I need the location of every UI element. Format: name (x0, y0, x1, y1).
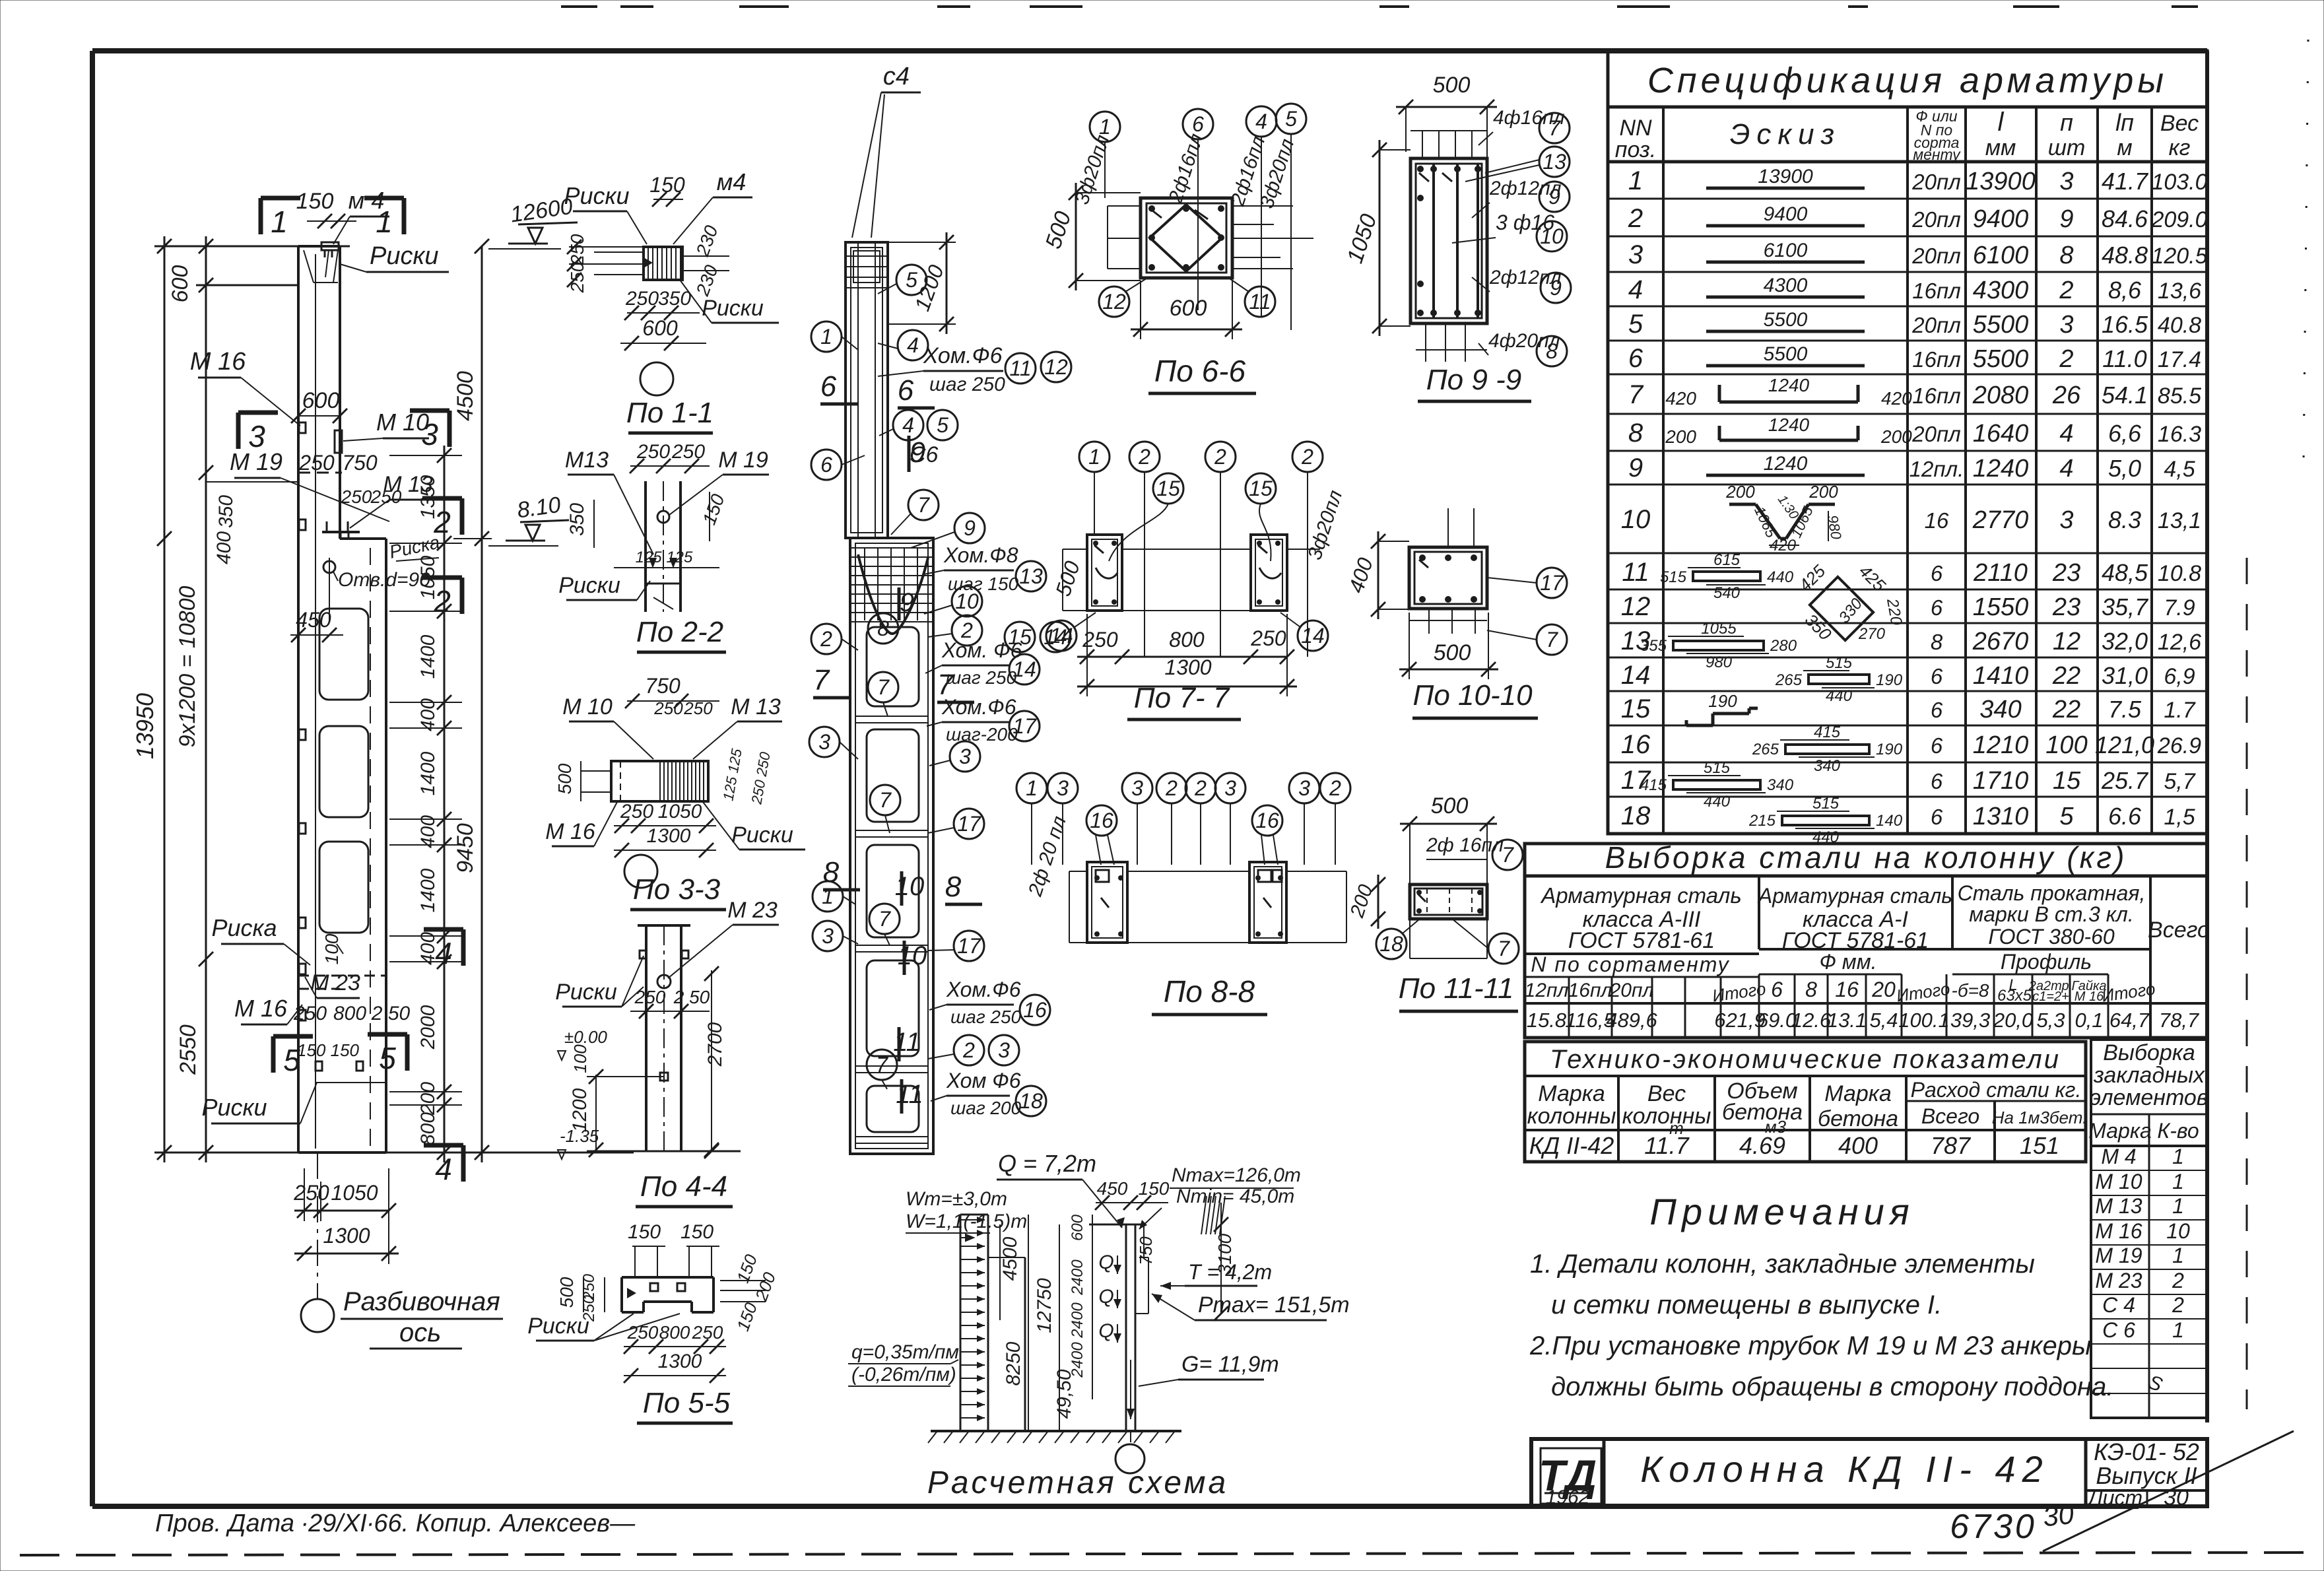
svg-text:1: 1 (1088, 445, 1100, 469)
svg-text:23: 23 (2052, 593, 2080, 621)
svg-text:Риски: Риски (555, 980, 617, 1005)
svg-text:1210: 1210 (1973, 731, 2029, 759)
svg-text:9: 9 (1628, 453, 1643, 483)
svg-text:230: 230 (692, 262, 722, 299)
svg-text:6: 6 (1931, 595, 1943, 620)
svg-text:2: 2 (820, 627, 832, 651)
svg-text:Nmax=126,0т: Nmax=126,0т (1172, 1164, 1301, 1186)
elevation right dim chain D (453, 239, 492, 1162)
svg-text:М 16: М 16 (2075, 989, 2104, 1004)
svg-text:lп: lп (2115, 109, 2134, 136)
svg-text:2110: 2110 (1973, 559, 2028, 587)
svg-text:17: 17 (957, 934, 981, 958)
svg-text:100: 100 (321, 933, 342, 964)
svg-text:1.7: 1.7 (2164, 698, 2195, 723)
level mark 8.10 (488, 492, 569, 546)
svg-text:8.10: 8.10 (515, 492, 562, 523)
svg-text:14: 14 (1301, 624, 1325, 648)
svg-text:элементов: элементов (2090, 1085, 2208, 1110)
svg-text:250 250: 250 250 (748, 751, 774, 806)
section flags on elevation (238, 198, 463, 1186)
svg-text:На 1м3бет.: На 1м3бет. (1992, 1108, 2088, 1127)
svg-text:12750: 12750 (1034, 1278, 1055, 1333)
svg-text:шаг-200: шаг-200 (946, 724, 1018, 745)
cage circled refs left (809, 321, 900, 1089)
svg-text:13: 13 (1543, 150, 1566, 174)
svg-text:1300: 1300 (658, 1351, 702, 1372)
svg-text:20пл: 20пл (1911, 207, 1960, 232)
svg-text:1240: 1240 (1768, 415, 1810, 435)
svg-text:М13: М13 (565, 448, 609, 473)
bottom dims of elevation (293, 1168, 399, 1264)
svg-text:М 10: М 10 (2095, 1170, 2142, 1193)
svg-text:менту: менту (1913, 146, 1961, 163)
svg-text:шаг 250: шаг 250 (946, 667, 1017, 688)
svg-text:230: 230 (692, 222, 722, 259)
svg-text:По 2-2: По 2-2 (636, 616, 723, 648)
svg-text:16пл: 16пл (1912, 347, 1960, 372)
svg-text:Профиль: Профиль (2001, 950, 2092, 974)
svg-text:48.8: 48.8 (2102, 242, 2148, 269)
svg-text:Риска: Риска (211, 914, 277, 941)
svg-text:шаг 200: шаг 200 (950, 1098, 1022, 1118)
svg-text:350: 350 (658, 288, 691, 310)
svg-text:С 6: С 6 (2102, 1318, 2135, 1342)
svg-text:200: 200 (1665, 426, 1696, 447)
svg-text:20: 20 (1871, 978, 1896, 1001)
svg-text:8: 8 (1805, 978, 1817, 1001)
svg-text:М 19: М 19 (2095, 1244, 2142, 1267)
svg-text:колонны: колонны (1622, 1104, 1711, 1129)
title block (1531, 1438, 2207, 1510)
lower м23/м16 detail (298, 944, 386, 989)
svg-text:М 13: М 13 (2095, 1194, 2142, 1218)
svg-text:12: 12 (1044, 355, 1068, 379)
svg-text:6,6: 6,6 (2108, 420, 2142, 447)
svg-text:4300: 4300 (1764, 275, 1808, 296)
svg-text:6100: 6100 (1764, 240, 1808, 261)
svg-text:М 16: М 16 (234, 995, 288, 1022)
svg-text:8: 8 (945, 871, 962, 903)
svg-text:2: 2 (2059, 277, 2073, 304)
svg-text:103.0: 103.0 (2151, 170, 2207, 195)
svg-text:7.9: 7.9 (2164, 595, 2195, 620)
м10 embed (335, 430, 342, 453)
svg-text:1240: 1240 (1768, 375, 1810, 395)
svg-text:По 8-8: По 8-8 (1164, 974, 1255, 1009)
svg-text:500: 500 (1051, 558, 1084, 599)
svg-text:Колонна КД II- 42: Колонна КД II- 42 (1640, 1448, 2049, 1490)
svg-text:340: 340 (1979, 696, 2021, 723)
section По 7-7 (1046, 442, 1346, 719)
svg-text:7: 7 (813, 664, 830, 696)
svg-text:3: 3 (1057, 776, 1069, 800)
svg-text:М 4: М 4 (2101, 1145, 2136, 1168)
svg-text:11: 11 (1249, 290, 1271, 314)
svg-text:бетона: бетона (1818, 1106, 1898, 1131)
svg-text:Ф мм.: Ф мм. (1819, 950, 1876, 974)
svg-text:415: 415 (1814, 723, 1841, 741)
svg-text:14: 14 (1621, 661, 1651, 690)
spec table sketches (1640, 166, 1912, 846)
svg-text:По 9 -9: По 9 -9 (1426, 364, 1521, 396)
svg-text:ось: ось (399, 1318, 441, 1347)
svg-text:5: 5 (283, 1043, 300, 1077)
svg-text:6: 6 (820, 453, 832, 477)
svg-text:30: 30 (2042, 1498, 2076, 1533)
svg-text:280: 280 (1770, 637, 1797, 655)
svg-text:540: 540 (1713, 584, 1741, 602)
svg-text:16: 16 (1023, 998, 1047, 1022)
svg-text:120.5: 120.5 (2151, 244, 2207, 269)
svg-text:750: 750 (342, 451, 378, 475)
svg-text:Арматурная сталь: Арматурная сталь (1540, 883, 1741, 908)
svg-text:800: 800 (333, 1003, 366, 1024)
svg-text:20пл: 20пл (1911, 422, 1960, 446)
svg-text:750: 750 (645, 674, 681, 698)
svg-text:5,3: 5,3 (2036, 1009, 2065, 1032)
svg-text:16: 16 (1090, 809, 1113, 832)
svg-text:750: 750 (1136, 1236, 1156, 1265)
svg-text:5500: 5500 (1973, 345, 2029, 373)
svg-text:350: 350 (566, 503, 588, 536)
svg-text:6730: 6730 (1950, 1508, 2037, 1546)
svg-text:7: 7 (1498, 937, 1510, 960)
svg-text:Q = 7,2т: Q = 7,2т (998, 1150, 1096, 1177)
svg-text:W=1,1(-1.5)т: W=1,1(-1.5)т (906, 1211, 1027, 1232)
svg-text:190: 190 (1876, 671, 1903, 689)
svg-text:250: 250 (293, 1181, 329, 1205)
svg-text:3: 3 (1298, 776, 1310, 800)
svg-text:1400: 1400 (417, 868, 439, 912)
svg-text:5: 5 (906, 268, 917, 292)
svg-text:Всего: Всего (2148, 918, 2210, 943)
svg-text:2: 2 (1194, 776, 1207, 800)
svg-text:1: 1 (271, 205, 288, 239)
svg-text:По 4-4: По 4-4 (640, 1170, 727, 1203)
svg-text:515: 515 (1660, 568, 1687, 586)
svg-text:7: 7 (917, 493, 930, 517)
cage circled refs + labels right (878, 265, 1071, 1118)
svg-text:150: 150 (296, 189, 334, 214)
elevation annotation labels (190, 187, 449, 1123)
svg-text:Технико-экономические показате: Технико-экономические показатели (1550, 1045, 2061, 1074)
svg-text:9: 9 (1550, 276, 1562, 300)
svg-text:N по сортаменту: N по сортаменту (1531, 953, 1729, 976)
svg-text:250: 250 (634, 987, 666, 1007)
svg-text:150 150: 150 150 (297, 1040, 360, 1060)
svg-text:209.0: 209.0 (2150, 207, 2207, 232)
column openings (319, 609, 368, 933)
svg-text:340: 340 (1814, 757, 1841, 775)
svg-text:8: 8 (1628, 418, 1643, 448)
svg-text:должны быть обращены в сторону: должны быть обращены в сторону поддона. (1551, 1372, 2113, 1401)
svg-text:3: 3 (822, 924, 834, 948)
svg-text:215: 215 (1748, 812, 1776, 830)
svg-text:G= 11,9т: G= 11,9т (1181, 1352, 1279, 1377)
svg-text:1050: 1050 (1343, 211, 1382, 267)
razbivochnaya os axis (301, 1153, 503, 1349)
top margin dashes (561, 5, 2198, 8)
svg-text:Риски: Риски (201, 1094, 267, 1121)
svg-text:М 13: М 13 (731, 694, 781, 719)
svg-text:15: 15 (1249, 477, 1273, 500)
svg-text:12,6: 12,6 (2158, 630, 2201, 655)
svg-text:2: 2 (2059, 345, 2073, 373)
svg-text:4.69: 4.69 (1739, 1132, 1785, 1159)
svg-text:18: 18 (1379, 932, 1403, 956)
svg-text:3: 3 (998, 1038, 1010, 1062)
svg-text:7: 7 (1546, 628, 1558, 652)
svg-text:600: 600 (168, 265, 193, 303)
svg-text:500: 500 (556, 1277, 577, 1308)
svg-text:500: 500 (1434, 640, 1471, 665)
svg-text:13,6: 13,6 (2158, 279, 2201, 304)
embed marks on left edge (299, 422, 306, 1020)
svg-text:2550: 2550 (176, 1024, 201, 1075)
svg-text:КЭ-01- 52: КЭ-01- 52 (2094, 1438, 2199, 1465)
svg-text:М 16: М 16 (545, 819, 595, 844)
svg-text:1240: 1240 (1973, 455, 2029, 483)
svg-text:3: 3 (1628, 240, 1643, 269)
svg-text:l: l (1998, 108, 2005, 137)
svg-text:По 10-10: По 10-10 (1412, 679, 1533, 712)
svg-text:М 10: М 10 (562, 694, 613, 719)
svg-text:800: 800 (659, 1322, 690, 1343)
svg-text:35,7: 35,7 (2102, 593, 2149, 620)
svg-text:7: 7 (879, 907, 891, 931)
svg-text:400: 400 (213, 531, 235, 564)
svg-text:2: 2 (1214, 445, 1226, 469)
svg-text:16: 16 (1925, 508, 1949, 533)
svg-text:1. Детали колонн, закладные эл: 1. Детали колонн, закладные элементы (1530, 1250, 2035, 1279)
svg-text:13,1: 13,1 (2158, 508, 2201, 533)
svg-text:С6: С6 (910, 442, 939, 467)
svg-text:2: 2 (433, 505, 451, 539)
svg-text:2400: 2400 (1069, 1302, 1086, 1339)
svg-text:600: 600 (1069, 1214, 1086, 1241)
svg-text:Хом.Ф6: Хом.Ф6 (946, 978, 1021, 1001)
cage wide lower part (850, 538, 933, 1154)
svg-text:12: 12 (1621, 592, 1651, 621)
svg-text:515: 515 (1704, 759, 1731, 777)
embedded table: Выборка закладных элементов (2088, 1040, 2208, 1418)
svg-text:М 16: М 16 (190, 348, 246, 376)
svg-text:2 50: 2 50 (673, 987, 710, 1007)
svg-text:Риски: Риски (702, 296, 764, 321)
svg-text:16: 16 (1835, 978, 1859, 1001)
cage: с4 top leader (852, 63, 921, 238)
svg-text:17.4: 17.4 (2158, 347, 2201, 372)
svg-text:Спецификация арматуры: Спецификация арматуры (1647, 61, 2168, 100)
svg-text:1: 1 (822, 885, 834, 908)
foot riski marks (315, 1061, 386, 1083)
svg-text:2: 2 (1165, 776, 1178, 800)
svg-text:4: 4 (2059, 420, 2073, 448)
svg-text:Wт=±3,0т: Wт=±3,0т (906, 1188, 1007, 1210)
svg-text:22: 22 (2052, 696, 2080, 723)
svg-text:8: 8 (1931, 630, 1943, 654)
svg-text:4300: 4300 (1973, 277, 2029, 304)
svg-text:6: 6 (898, 374, 914, 407)
svg-text:0,1: 0,1 (2075, 1009, 2103, 1032)
svg-text:q=0,35т/пм: q=0,35т/пм (851, 1341, 959, 1363)
svg-text:3ф20пл: 3ф20пл (1071, 132, 1114, 207)
svg-text:Арматурная сталь: Арматурная сталь (1757, 884, 1952, 908)
svg-text:5,7: 5,7 (2164, 769, 2195, 794)
svg-text:10.8: 10.8 (2158, 561, 2201, 586)
svg-text:13900: 13900 (1966, 168, 2036, 195)
svg-text:2400: 2400 (1069, 1259, 1086, 1296)
svg-text:3: 3 (959, 745, 971, 768)
svg-text:125 125: 125 125 (636, 549, 693, 566)
svg-text:600: 600 (302, 388, 340, 413)
svg-text:10: 10 (955, 589, 979, 613)
svg-text:6: 6 (1931, 733, 1943, 758)
svg-text:200: 200 (1880, 426, 1912, 447)
svg-text:787: 787 (1931, 1132, 1972, 1159)
svg-text:По 11-11: По 11-11 (1399, 972, 1514, 1005)
svg-text:20пл: 20пл (1911, 170, 1960, 194)
svg-text:М 23: М 23 (2095, 1269, 2142, 1292)
svg-text:1: 1 (2172, 1145, 2184, 1168)
svg-text:250: 250 (653, 698, 683, 718)
svg-text:4: 4 (907, 333, 919, 357)
svg-text:3: 3 (421, 417, 438, 451)
svg-text:Риски: Риски (370, 242, 439, 270)
svg-text:7: 7 (879, 788, 892, 812)
svg-text:1050: 1050 (331, 1181, 378, 1205)
svg-text:2: 2 (433, 584, 451, 618)
svg-text:7: 7 (876, 1053, 888, 1077)
svg-text:1300: 1300 (647, 825, 691, 847)
svg-text:350: 350 (1801, 610, 1836, 644)
svg-text:12.6: 12.6 (1791, 1009, 1832, 1032)
svg-text:1962: 1962 (1546, 1487, 1590, 1508)
svg-text:7.5: 7.5 (2108, 696, 2142, 723)
svg-text:190: 190 (1876, 741, 1903, 758)
svg-text:25.7: 25.7 (2101, 767, 2149, 794)
section По 10-10 (1344, 508, 1567, 718)
svg-text:350: 350 (215, 495, 237, 528)
svg-text:400: 400 (1838, 1132, 1878, 1159)
svg-text:Хом. Ф6: Хом. Ф6 (941, 638, 1022, 662)
svg-text:400: 400 (1344, 554, 1378, 595)
svg-text:16.5: 16.5 (2102, 311, 2148, 338)
svg-text:200: 200 (1809, 482, 1838, 502)
svg-text:колонны: колонны (1527, 1104, 1616, 1129)
svg-text:С 4: С 4 (2102, 1293, 2135, 1317)
svg-text:600: 600 (642, 316, 678, 340)
svg-text:2: 2 (962, 1038, 975, 1062)
svg-text:17: 17 (957, 812, 981, 836)
svg-text:Q: Q (1098, 1252, 1113, 1273)
svg-text:1: 1 (2172, 1318, 2184, 1342)
tech-econ table: Технико-экономические показатели (1525, 1042, 2087, 1162)
svg-text:3: 3 (2059, 506, 2073, 534)
svg-text:125 125: 125 125 (719, 747, 745, 802)
svg-text:600: 600 (1170, 296, 1207, 321)
svg-text:Разбивочная: Разбивочная (343, 1287, 500, 1316)
svg-text:5500: 5500 (1764, 309, 1808, 331)
svg-text:415: 415 (1640, 776, 1667, 794)
svg-text:с4: с4 (883, 63, 910, 90)
svg-text:3: 3 (2059, 168, 2073, 195)
svg-text:По 3-3: По 3-3 (633, 873, 721, 906)
svg-text:6,9: 6,9 (2164, 664, 2195, 689)
svg-text:кг: кг (2169, 135, 2191, 160)
svg-text:Хом.Ф6: Хом.Ф6 (941, 695, 1016, 719)
section По 4-4 (555, 898, 779, 1207)
svg-text:5500: 5500 (1973, 311, 2029, 339)
svg-text:100.1: 100.1 (1898, 1009, 1950, 1032)
svg-text:Примечания: Примечания (1649, 1191, 1914, 1232)
svg-text:М 23: М 23 (727, 898, 778, 923)
svg-text:Риски: Риски (731, 822, 793, 848)
svg-text:Расход стали кг.: Расход стали кг. (1911, 1078, 2082, 1102)
svg-text:Риски: Риски (527, 1314, 589, 1339)
svg-text:2.При установке трубок М 19 и: 2.При установке трубок М 19 и М 23 анкер… (1529, 1331, 2091, 1360)
svg-text:4500: 4500 (999, 1236, 1021, 1281)
svg-text:Эскиз: Эскиз (1730, 118, 1841, 150)
svg-text:16пл: 16пл (1912, 384, 1960, 408)
svg-text:Марка: Марка (2088, 1119, 2152, 1143)
svg-text:500: 500 (1433, 73, 1471, 98)
svg-text:Марка: Марка (1538, 1081, 1605, 1106)
svg-text:16пл: 16пл (1568, 980, 1612, 1001)
svg-text:мм: мм (1985, 135, 2016, 160)
svg-text:Вес: Вес (2160, 111, 2199, 136)
svg-text:340: 340 (1767, 776, 1794, 794)
svg-text:2: 2 (1628, 204, 1643, 233)
svg-text:150: 150 (628, 1221, 661, 1243)
svg-text:250: 250 (627, 1322, 659, 1343)
svg-text:1: 1 (376, 205, 393, 239)
svg-text:6: 6 (1931, 769, 1943, 793)
svg-text:1: 1 (2172, 1170, 2184, 1193)
svg-text:м: м (2117, 135, 2132, 160)
svg-text:20,0: 20,0 (1993, 1009, 2033, 1032)
svg-text:9400: 9400 (1764, 203, 1808, 225)
svg-text:1640: 1640 (1973, 420, 2029, 448)
cage 1200 dim (888, 232, 956, 334)
svg-text:По 6-6: По 6-6 (1154, 354, 1246, 388)
svg-text:4,5: 4,5 (2164, 457, 2195, 482)
svg-text:121,0: 121,0 (2095, 731, 2154, 758)
svg-text:500: 500 (1041, 209, 1077, 252)
svg-text:14: 14 (1013, 657, 1036, 681)
svg-text:6: 6 (1931, 561, 1943, 585)
section По 1-1 (564, 168, 779, 433)
svg-text:4: 4 (2059, 455, 2073, 483)
svg-text:Сталь прокатная,: Сталь прокатная, (1958, 881, 2146, 905)
svg-text:м4: м4 (717, 168, 747, 195)
svg-text:2: 2 (2172, 1293, 2184, 1317)
svg-text:23: 23 (2052, 559, 2080, 587)
column top cap м4 detail (304, 242, 339, 283)
svg-text:Вес: Вес (1647, 1081, 1686, 1106)
svg-text:515: 515 (1812, 795, 1840, 813)
svg-text:7: 7 (1502, 843, 1514, 867)
svg-text:9: 9 (964, 516, 976, 540)
svg-text:265: 265 (1752, 741, 1779, 758)
steel table: Выборка стали на колонну (1525, 840, 2210, 1038)
svg-text:190: 190 (1708, 691, 1737, 711)
svg-text:М 16: М 16 (2095, 1219, 2142, 1243)
svg-text:78,7: 78,7 (2159, 1009, 2200, 1032)
svg-text:-1.35: -1.35 (560, 1126, 599, 1146)
svg-text:2ф16пл: 2ф16пл (1164, 131, 1207, 206)
